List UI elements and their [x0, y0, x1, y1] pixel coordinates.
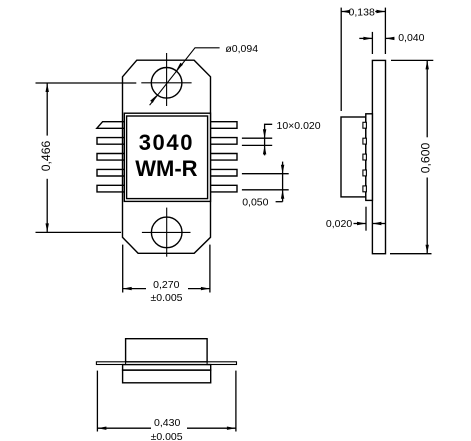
dim 0,600 arrow up [426, 60, 429, 69]
side view: lead stub S2 [363, 138, 367, 144]
lead R1 (right) [211, 122, 238, 129]
dim 0,050 arrow up [281, 190, 284, 199]
dim 0,600 dimension line (broken for text) [426, 60, 428, 137]
svg-text:10×0.020: 10×0.020 [277, 120, 321, 132]
dim 0,430 arrow right [227, 427, 236, 430]
bottom view: body rectangle [126, 339, 208, 362]
svg-text:ø0,094: ø0,094 [225, 43, 258, 55]
side view: seal ring strip [366, 114, 373, 201]
side view: lead stub S3 [363, 154, 367, 160]
dim 0,600 extension line bottom [390, 253, 432, 255]
hole H1 horizontal centerline [141, 82, 191, 84]
dim 10x0.020 arrow down [263, 129, 266, 138]
dim 0,270 arrow right [201, 287, 210, 290]
dim 0,138 / 0,040 shared right extension line (flange right edge) [384, 8, 386, 54]
dim 0,050 extension lines (centerlines of leads R4 and R5) [242, 173, 289, 175]
main view: package flange outline (octagon with chamfered corners) [123, 60, 211, 253]
dim 10x0.020 arrow up [263, 145, 266, 154]
dim 0,050 vertical dimension line [282, 162, 284, 202]
lead R4 (right) [211, 169, 238, 176]
side view: body rectangle [341, 117, 366, 197]
dim 0,020 leader line from text [354, 223, 367, 225]
svg-text:0,466: 0,466 [39, 141, 53, 172]
hole H2 vertical centerline [166, 208, 168, 257]
bottom view: left lead [96, 362, 125, 365]
bottom view: seal ring band [123, 365, 211, 371]
dim 0,600 extension line top [391, 59, 433, 61]
dim 0,430 dimension line (broken for text) [97, 427, 151, 429]
dim 0,040 dimension line with outside arrows [359, 37, 372, 39]
side view: lead stub S4 [363, 170, 367, 176]
dim 0,466 extension line bottom (through hole H2 center) [36, 231, 122, 233]
dim 0,040 arrow (points right at flange left edge) [363, 37, 372, 40]
leader for hole diameter label [150, 48, 220, 105]
dim 10x0.020 vertical dimension line with leader elbow [265, 124, 273, 155]
dim 0,138 arrow right [376, 10, 385, 13]
svg-text:0,040: 0,040 [398, 32, 424, 44]
lead R3 (right) [211, 154, 238, 161]
mounting hole H1 (top) [151, 68, 182, 99]
svg-text:0,600: 0,600 [419, 143, 433, 174]
dim 0,430 extension lines [96, 371, 98, 432]
lead R5 (right) [211, 185, 238, 192]
dim 0,270 arrow left [123, 287, 132, 290]
lead L4 (left) [97, 169, 124, 176]
lead R2 (right) [211, 138, 238, 145]
svg-text:0,020: 0,020 [326, 218, 352, 230]
dim 0,138 arrow left [341, 10, 350, 13]
hole H2 horizontal centerline [142, 231, 191, 233]
lead L3 (left) [97, 154, 124, 161]
main view: body inner rectangle [127, 116, 208, 199]
svg-text:0,270: 0,270 [153, 279, 179, 291]
side view: flange plate rectangle [372, 60, 385, 253]
bottom view: flange slab [123, 370, 211, 383]
leader arrowhead at bottom of hole H1 [150, 95, 157, 103]
bottom view: right lead [207, 362, 236, 365]
dim 0,050 arrow down [281, 165, 284, 174]
dim 0,466 arrow down [46, 223, 49, 232]
dim 10x0.020 extension lines from lead R2 [242, 137, 272, 139]
dim 0,020 right shaft inside flange [372, 223, 385, 225]
dim 0,270 extension lines [122, 245, 124, 293]
side view: lead stub S1 [363, 122, 367, 128]
lead L1 (top-left, chamfered end) [97, 122, 125, 129]
hole H1 vertical centerline [166, 53, 168, 106]
dim 0,270 dimension line (broken for text) [123, 288, 146, 290]
lead L2 (left) [97, 138, 124, 145]
side view: lead stub S5 [363, 186, 367, 192]
dim 0,040 left extension line (flange left edge) [371, 32, 373, 54]
dim 0,020 extension line (seal ring left edge) [365, 207, 367, 231]
dim 0,040 arrow (points left at flange right edge) [385, 37, 394, 40]
dim 0,466 arrow up [46, 83, 49, 92]
svg-text:±0.005: ±0.005 [150, 292, 182, 304]
dim 0,466 dimension line (broken for text) [46, 83, 48, 136]
dim 0,466 extension line top (through hole H1 center) [36, 82, 137, 84]
svg-text:0,138: 0,138 [349, 6, 375, 18]
mounting hole H2 (bottom) [151, 217, 182, 248]
svg-text:WM-R: WM-R [135, 156, 197, 181]
dim 0,020 arrow (points left at flange face) [372, 222, 381, 225]
dim 0,050 leader to text [276, 201, 283, 203]
dim 0,430 arrow left [97, 427, 106, 430]
svg-text:0,430: 0,430 [154, 417, 180, 429]
dim 0,138 dimension line (broken for text) [341, 11, 348, 13]
svg-text:0,050: 0,050 [242, 197, 268, 209]
svg-text:±0.005: ±0.005 [151, 431, 183, 441]
dim 0,138 left extension line (body left edge) [340, 8, 342, 111]
lead L5 (left) [97, 185, 124, 192]
dim 0,020 arrow (points right at seal ring) [357, 222, 366, 225]
dim 0,600 arrow down [426, 245, 429, 254]
main view: body outer rectangle [124, 113, 210, 201]
leader arrowhead at top of hole H1 [176, 63, 183, 71]
svg-text:3040: 3040 [139, 130, 194, 155]
